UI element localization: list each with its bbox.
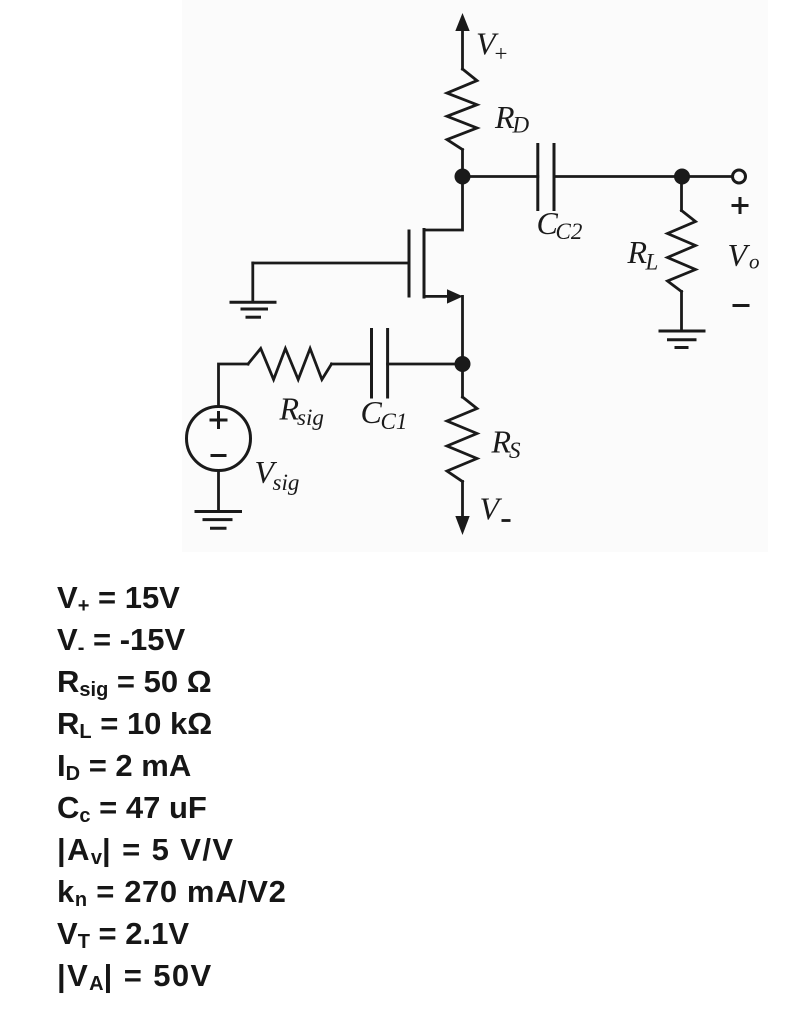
svg-text:sig: sig xyxy=(297,405,324,430)
node output dot xyxy=(674,169,690,185)
wire CC2 to output node xyxy=(554,175,682,178)
svg-text:C1: C1 xyxy=(381,409,408,434)
scan background xyxy=(182,0,768,552)
ground RL xyxy=(660,330,704,333)
minus sign output xyxy=(734,304,748,307)
wire gate lead xyxy=(253,262,409,265)
wire Q1 source lead xyxy=(424,295,450,298)
wire drain node down to MOSFET drain xyxy=(424,177,463,231)
wire Rsig to Vsig xyxy=(219,364,249,407)
svg-text:C: C xyxy=(361,394,383,430)
svg-text:S: S xyxy=(509,438,521,463)
resistor RL xyxy=(668,211,696,292)
transistor Q1 gate bar xyxy=(408,231,411,296)
resistor Rsig xyxy=(248,349,332,380)
wire RS to V- xyxy=(461,482,464,520)
svg-text:L: L xyxy=(645,250,659,275)
ground gate xyxy=(231,301,275,304)
arrowhead V- xyxy=(455,516,469,535)
svg-text:sig: sig xyxy=(273,470,300,495)
capacitor CC1 xyxy=(370,330,373,398)
wire CC1 to Rsig xyxy=(332,363,372,366)
source Vsig xyxy=(187,407,251,471)
wire gate to ground xyxy=(251,263,254,302)
wire drain node to CC2 xyxy=(463,175,538,178)
transistor Q1 channel bar xyxy=(423,230,426,298)
wire V+ lead xyxy=(461,28,464,69)
wire source node to CC1 xyxy=(388,363,463,366)
wire output node to RL xyxy=(680,177,683,211)
svg-text:o: o xyxy=(749,250,760,274)
node drain dot xyxy=(455,169,471,185)
resistor RD xyxy=(447,69,477,150)
arrowhead Q1 source xyxy=(447,289,463,303)
svg-text:C2: C2 xyxy=(556,219,583,244)
resistor RS xyxy=(447,397,477,482)
ground Vsig xyxy=(196,510,241,513)
wire output node to terminal xyxy=(682,175,732,178)
node source dot xyxy=(455,356,471,372)
plus sign output xyxy=(733,204,747,207)
arrowhead V+ xyxy=(455,13,469,31)
svg-text:+: + xyxy=(495,41,508,66)
wire Vsig to ground xyxy=(217,471,220,512)
svg-text:R: R xyxy=(627,234,648,270)
wire source node to RS xyxy=(461,364,464,397)
terminal Vo open circle xyxy=(733,170,746,183)
svg-text:D: D xyxy=(512,113,530,138)
wire RD to drain node xyxy=(461,150,464,177)
wire source down to source node xyxy=(461,296,464,364)
label V- subscript dash xyxy=(502,519,511,522)
wire RL to ground xyxy=(680,292,683,332)
capacitor CC2 xyxy=(536,145,539,210)
